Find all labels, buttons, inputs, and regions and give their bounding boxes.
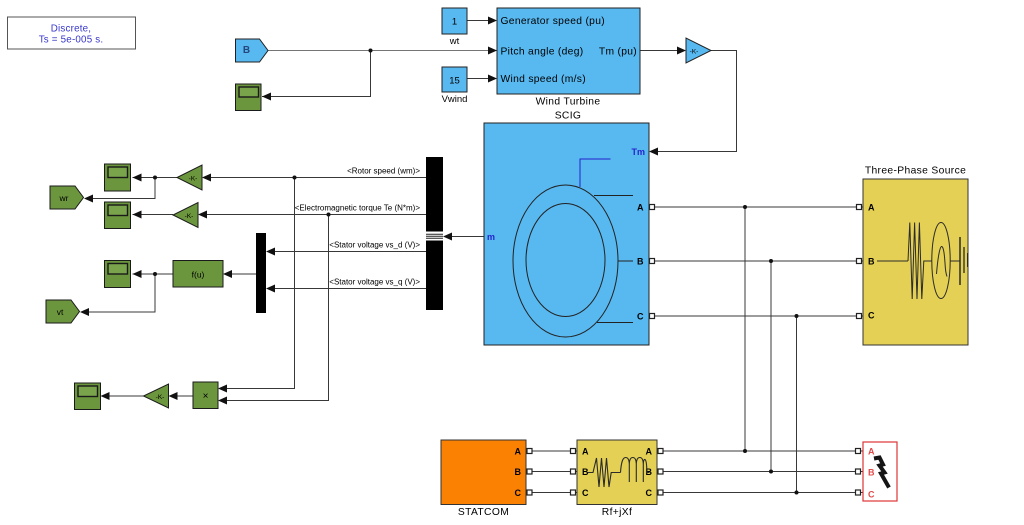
svg-text:Ts = 5e-005 s.: Ts = 5e-005 s. (39, 35, 104, 46)
svg-text:B: B (868, 257, 875, 267)
svg-text:Generator speed (pu): Generator speed (pu) (501, 16, 605, 27)
svg-text:C: C (637, 312, 644, 322)
svg-text:Discrete,: Discrete, (51, 24, 91, 35)
svg-text:-K-: -K- (185, 213, 194, 220)
svg-text:Three-Phase Source: Three-Phase Source (865, 166, 966, 177)
svg-text:wr: wr (59, 193, 69, 203)
svg-text:Wind speed (m/s): Wind speed (m/s) (501, 74, 586, 85)
svg-text:C: C (868, 311, 875, 321)
svg-text:-K-: -K- (690, 49, 699, 56)
svg-text:C: C (646, 488, 653, 498)
svg-text:m: m (487, 232, 495, 242)
svg-text:f(u): f(u) (192, 270, 205, 280)
svg-text:A: A (868, 203, 875, 213)
svg-text:-K-: -K- (156, 394, 165, 401)
svg-text:Tm: Tm (632, 147, 646, 157)
svg-text:<Stator voltage vs_d (V)>: <Stator voltage vs_d (V)> (329, 241, 420, 250)
svg-text:B: B (637, 257, 644, 267)
svg-text:<Rotor speed (wm)>: <Rotor speed (wm)> (347, 166, 420, 175)
svg-text:Rf+jXf: Rf+jXf (602, 507, 632, 518)
svg-text:Wind Turbine: Wind Turbine (536, 97, 601, 108)
svg-text:B: B (868, 468, 875, 478)
svg-text:SCIG: SCIG (555, 111, 582, 122)
svg-text:vt: vt (57, 307, 64, 317)
svg-text:-K-: -K- (189, 176, 198, 183)
svg-text:A: A (582, 447, 589, 457)
svg-text:A: A (868, 447, 875, 457)
svg-text:×: × (203, 391, 209, 402)
svg-text:C: C (868, 490, 875, 500)
svg-text:1: 1 (452, 17, 457, 28)
svg-text:B: B (515, 467, 522, 477)
svg-text:Tm (pu): Tm (pu) (599, 47, 637, 58)
svg-text:<Stator voltage vs_q (V)>: <Stator voltage vs_q (V)> (329, 278, 420, 287)
svg-text:15: 15 (449, 76, 460, 87)
svg-text:A: A (515, 447, 522, 457)
svg-text:A: A (646, 447, 653, 457)
svg-text:C: C (515, 488, 522, 498)
svg-text:B: B (243, 45, 250, 56)
svg-text:<Electromagnetic torque Te (N*: <Electromagnetic torque Te (N*m)> (295, 204, 421, 213)
svg-text:STATCOM: STATCOM (458, 507, 509, 518)
svg-text:C: C (582, 488, 589, 498)
svg-text:Vwind: Vwind (442, 94, 468, 105)
svg-text:wt: wt (449, 36, 460, 47)
svg-text:A: A (637, 203, 644, 213)
svg-text:Pitch angle (deg): Pitch angle (deg) (501, 47, 584, 58)
